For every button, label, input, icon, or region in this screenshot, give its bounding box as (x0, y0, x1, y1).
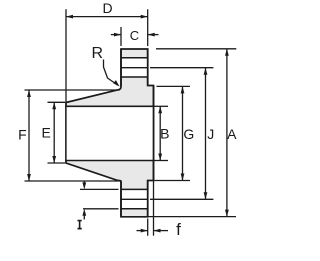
svg-text:E: E (42, 125, 51, 141)
dimension B line (159, 106, 161, 160)
label I (78, 220, 82, 230)
bolt hole top lower edge (121, 76, 148, 78)
bolt hole bottom (white) (122, 190, 147, 208)
A reference bottom (148, 216, 236, 218)
D extension line left (65, 9, 67, 163)
dimension J line (205, 68, 207, 200)
F extension top (25, 89, 120, 91)
flange plate right face lower (147, 181, 149, 217)
I reference bottom (83, 208, 119, 210)
dimension D line (66, 16, 148, 18)
svg-text:C: C (130, 28, 139, 43)
bolt hole bottom lower edge (121, 208, 148, 210)
svg-text:f: f (176, 220, 181, 239)
dimension A line (226, 49, 228, 217)
flange plate right face upper (147, 49, 149, 86)
flange body outer profile (66, 49, 154, 217)
G reference bottom (155, 180, 191, 182)
dimension G line (182, 86, 184, 180)
bore bottom edge (65, 160, 153, 162)
flange plate left face lower (120, 181, 122, 217)
f extension left (147, 219, 149, 236)
D extension line right (147, 9, 149, 46)
svg-text:A: A (227, 126, 237, 142)
bore (white) (66, 106, 154, 160)
dimension F line (28, 90, 30, 181)
dimension E line (53, 102, 55, 163)
svg-text:G: G (183, 126, 194, 142)
bolt hole centerline top / J top reference (121, 67, 148, 69)
I reference top (80, 188, 119, 190)
svg-text:D: D (102, 0, 112, 16)
I arrow top (83, 181, 85, 185)
E extension top (48, 101, 66, 103)
dimension C arrows (111, 34, 121, 36)
A reference top (156, 48, 236, 50)
svg-text:F: F (18, 126, 27, 142)
raised face front line (153, 86, 155, 181)
F extension bottom (25, 180, 120, 182)
svg-text:B: B (160, 126, 169, 142)
bolt hole top (white) (122, 58, 147, 76)
f arrows (137, 230, 148, 232)
bolt hole centerline bottom / J bottom reference (121, 198, 148, 200)
R leader line (104, 60, 118, 86)
G reference top (157, 85, 191, 87)
bolt hole top upper edge (121, 57, 148, 59)
E extension bottom (48, 162, 66, 164)
svg-text:R: R (92, 45, 104, 62)
I arrow bottom (83, 214, 85, 220)
svg-text:J: J (207, 126, 214, 142)
bolt hole bottom upper edge (121, 188, 148, 190)
C extension line left (120, 27, 122, 46)
flange plate left face upper (120, 49, 122, 87)
f extension right (153, 181, 155, 236)
bore top edge (65, 105, 153, 107)
